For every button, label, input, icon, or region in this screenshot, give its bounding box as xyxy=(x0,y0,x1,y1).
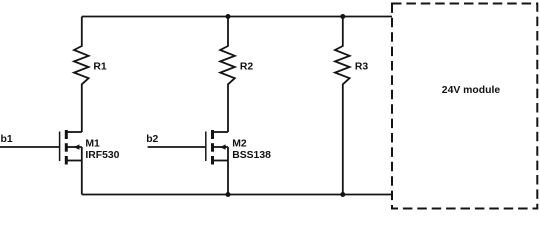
svg-text:M1: M1 xyxy=(85,138,100,149)
svg-text:24V module: 24V module xyxy=(442,85,501,96)
svg-text:R3: R3 xyxy=(355,62,369,73)
svg-text:b1: b1 xyxy=(1,134,13,145)
svg-text:R2: R2 xyxy=(240,62,254,73)
svg-text:M2: M2 xyxy=(232,138,247,149)
svg-text:IRF530: IRF530 xyxy=(85,150,119,161)
svg-text:R1: R1 xyxy=(93,62,107,73)
svg-text:BSS138: BSS138 xyxy=(232,150,271,161)
svg-text:b2: b2 xyxy=(146,134,158,145)
